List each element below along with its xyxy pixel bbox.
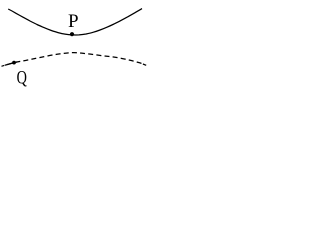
point P dot <box>70 32 74 36</box>
point Q dot <box>12 61 16 65</box>
svg-text:Q: Q <box>17 66 27 87</box>
dashed curve (lower branch) <box>2 53 143 67</box>
svg-text:P: P <box>68 11 79 32</box>
solid curve (upper branch) <box>8 9 142 35</box>
final dash of lower curve <box>143 64 146 65</box>
solid dash segment through Q dot <box>5 62 17 65</box>
